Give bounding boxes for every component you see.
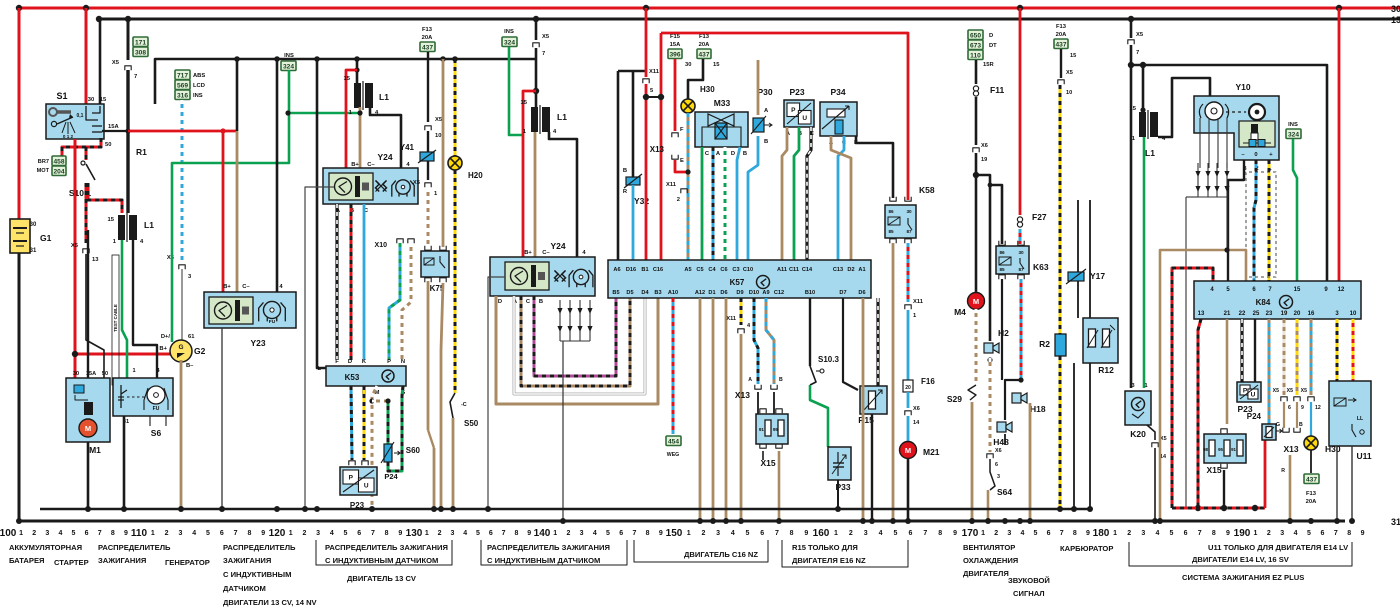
wire K84 pin23 (brown/blue) to P24 — [1268, 319, 1271, 424]
svg-text:3: 3 — [450, 530, 454, 537]
wire junction to H48 (black) — [1005, 380, 1021, 420]
svg-text:6: 6 — [995, 462, 998, 468]
wire M33 C to K57 C5 (green) — [701, 147, 704, 260]
svg-text:8: 8 — [514, 530, 518, 537]
svg-text:204: 204 — [53, 169, 64, 176]
svg-text:6: 6 — [1184, 530, 1188, 537]
svg-text:87: 87 — [906, 229, 912, 234]
svg-text:7: 7 — [1060, 530, 1064, 537]
wire Y10-2 to K84 pin 6 (blue/black) — [1254, 160, 1256, 281]
svg-text:85: 85 — [999, 267, 1005, 272]
wire Y24 screen ground (thin) — [488, 277, 505, 509]
svg-text:20: 20 — [905, 385, 911, 391]
svg-text:X13: X13 — [735, 390, 750, 400]
wire M1 15A (black) — [87, 230, 89, 378]
ignition coil L1 (for Y24) — [356, 59, 359, 83]
svg-text:F11: F11 — [990, 85, 1004, 95]
svg-text:1: 1 — [1253, 530, 1257, 537]
svg-text:4: 4 — [330, 530, 334, 537]
svg-text:ДВИГАТЕЛЯ: ДВИГАТЕЛЯ — [963, 569, 1009, 578]
wire S6 to junction line — [123, 416, 126, 509]
wire ignition switch feed from bus 30 — [85, 8, 88, 104]
bracket engine C16 NZ — [634, 540, 768, 562]
svg-text:R15 ТОЛЬКО ДЛЯ: R15 ТОЛЬКО ДЛЯ — [792, 543, 858, 552]
svg-text:50: 50 — [105, 142, 111, 148]
wire H30 to K57 A5 (brown/blue) — [687, 113, 690, 260]
svg-text:2: 2 — [677, 197, 680, 203]
svg-text:X5: X5 — [1287, 388, 1293, 394]
wire black from bus to Y23 C- — [236, 59, 239, 131]
svg-text:4: 4 — [463, 530, 467, 537]
svg-text:31: 31 — [30, 248, 37, 254]
spark plug array (right) — [1197, 163, 1199, 197]
wire bus30 to K84 pin 12 (red) — [1338, 8, 1341, 281]
svg-text:X5: X5 — [542, 34, 550, 40]
svg-text:30: 30 — [1018, 250, 1024, 255]
wire to fuse F11 — [975, 60, 978, 84]
svg-text:ABS: ABS — [193, 73, 205, 79]
svg-text:R1: R1 — [136, 147, 147, 157]
svg-text:1: 1 — [553, 530, 557, 537]
wire S1 pin 15 from bus 15 — [99, 19, 102, 104]
wire K84 pin21 (brown) to X15 — [1226, 319, 1229, 424]
svg-text:91: 91 — [759, 427, 765, 432]
resistor R2 — [1055, 334, 1066, 356]
svg-text:E: E — [680, 158, 684, 164]
svg-text:1: 1 — [151, 530, 155, 537]
svg-text:B–: B– — [186, 363, 194, 369]
wire ballast resistor R1 from bus 15 — [127, 19, 130, 60]
svg-text:20A: 20A — [1306, 499, 1317, 505]
wire F13 to lamp H30 (black) — [688, 59, 703, 99]
wire X11-4 ground (brown) — [740, 334, 743, 521]
svg-text:G: G — [178, 344, 183, 351]
svg-text:61: 61 — [188, 334, 195, 340]
svg-text:D16: D16 — [626, 267, 636, 273]
svg-text:9: 9 — [261, 530, 265, 537]
node dots on line 31 — [16, 518, 22, 524]
svg-text:7: 7 — [98, 530, 102, 537]
svg-text:140: 140 — [534, 528, 551, 539]
wire P34 A to K57 D2 (brown) — [831, 136, 851, 260]
node junctions on bus 30 — [16, 5, 22, 11]
svg-text:A9: A9 — [762, 290, 769, 296]
wire Y41 to K75 (brown/white) — [427, 188, 430, 247]
svg-text:H48: H48 — [993, 437, 1009, 447]
svg-text:R12: R12 — [1098, 365, 1114, 375]
wire K57 A6 black — [617, 71, 620, 260]
svg-text:1: 1 — [132, 368, 135, 374]
svg-text:LCD: LCD — [193, 83, 205, 89]
wire S29 ground (brown) — [971, 402, 974, 521]
svg-text:50: 50 — [102, 371, 108, 377]
resistor P24 (left) — [384, 444, 392, 462]
wire H18 ground (brown) — [1029, 403, 1032, 521]
generator G2 — [170, 340, 192, 362]
wire K20 to X5-14 — [1147, 425, 1155, 440]
svg-text:8: 8 — [938, 530, 942, 537]
svg-text:R2: R2 — [1039, 339, 1050, 349]
wire K57 D1 ground (brown) — [712, 298, 715, 521]
wire Y24 D (white) loop to K57 D4 — [514, 296, 645, 394]
wire K84 pin13 (red/black) to ground loop — [1198, 319, 1201, 508]
svg-text:F27: F27 — [1032, 212, 1047, 222]
fuse F16 — [903, 380, 913, 392]
fuse label 171 308 — [133, 37, 148, 47]
svg-text:98: 98 — [1203, 447, 1208, 452]
svg-text:LL: LL — [1357, 416, 1364, 422]
wire P34 B to relay K58 (black) — [856, 136, 893, 198]
svg-text:3: 3 — [316, 530, 320, 537]
svg-text:C10: C10 — [743, 267, 753, 273]
svg-text:8: 8 — [646, 530, 650, 537]
svg-text:A10: A10 — [668, 290, 678, 296]
svg-text:ВЕНТИЛЯТОР: ВЕНТИЛЯТОР — [963, 543, 1015, 552]
svg-text:15A: 15A — [670, 42, 681, 48]
svg-text:2: 2 — [1127, 530, 1131, 537]
svg-text:2: 2 — [438, 530, 442, 537]
wire K84 pin20 (brown/yellow) to X13 — [1296, 319, 1299, 395]
test cable marking — [112, 255, 119, 385]
svg-text:X13: X13 — [1283, 444, 1298, 454]
wire Y24 B (red/black) to K53 D — [350, 204, 353, 360]
svg-text:12: 12 — [1315, 405, 1321, 411]
svg-text:171: 171 — [135, 40, 146, 47]
svg-text:D: D — [498, 299, 502, 305]
svg-text:С ИНДУКТИВНЫМ: С ИНДУКТИВНЫМ — [223, 570, 291, 579]
svg-text:7: 7 — [923, 530, 927, 537]
wire P33 ground — [837, 480, 839, 509]
wire H2 to X6-6 (brown/white) — [987, 357, 992, 362]
svg-text:4: 4 — [1155, 530, 1159, 537]
svg-text:M: M — [85, 424, 91, 433]
capacitor P33 — [828, 447, 851, 480]
wire M21 ground — [907, 458, 910, 521]
svg-text:Y41: Y41 — [400, 143, 415, 152]
svg-text:ДАТЧИКОМ: ДАТЧИКОМ — [223, 584, 266, 593]
svg-text:СИСТЕМА ЗАЖИГАНИЯ EZ PLUS: СИСТЕМА ЗАЖИГАНИЯ EZ PLUS — [1182, 573, 1304, 582]
svg-text:M: M — [905, 446, 911, 455]
svg-text:H20: H20 — [468, 171, 483, 180]
svg-text:ДВИГАТЕЛИ E14 LV, 16 SV: ДВИГАТЕЛИ E14 LV, 16 SV — [1192, 555, 1290, 564]
svg-text:A: A — [748, 377, 752, 383]
svg-text:БАТАРЕЯ: БАТАРЕЯ — [9, 556, 45, 565]
svg-text:K57: K57 — [730, 278, 745, 287]
svg-text:M4: M4 — [954, 307, 966, 317]
wire X5-13 to M1 terminal 50 — [86, 254, 104, 378]
svg-text:P30: P30 — [757, 87, 772, 97]
svg-text:F15: F15 — [670, 34, 681, 40]
svg-text:130: 130 — [406, 528, 423, 539]
svg-text:-C: -C — [461, 402, 467, 408]
svg-text:324: 324 — [1288, 132, 1299, 139]
resistor R15 — [860, 386, 887, 414]
svg-text:ЗВУКОВОЙ: ЗВУКОВОЙ — [1008, 576, 1050, 585]
wire to fan motor M4 — [975, 175, 978, 292]
svg-text:3: 3 — [716, 530, 720, 537]
svg-text:C6: C6 — [720, 267, 727, 273]
svg-text:P: P — [387, 359, 391, 365]
svg-text:X6: X6 — [981, 143, 988, 149]
switch S29 — [968, 385, 976, 400]
svg-text:1: 1 — [981, 530, 985, 537]
wire H20 feed (yellow/black) from top — [454, 59, 457, 156]
wire X11 to fuse F16 (blue) — [907, 310, 910, 380]
svg-text:B: B — [539, 299, 543, 305]
svg-text:Y24: Y24 — [377, 152, 392, 162]
lamp H30 (right) — [1310, 402, 1312, 436]
svg-text:B: B — [764, 139, 768, 145]
svg-text:15A: 15A — [108, 124, 119, 130]
bracket engine 13CV — [316, 540, 452, 565]
svg-text:4: 4 — [1020, 530, 1024, 537]
svg-text:1: 1 — [425, 530, 429, 537]
svg-text:H18: H18 — [1030, 404, 1046, 414]
svg-text:Y24: Y24 — [550, 241, 565, 251]
svg-text:C4: C4 — [708, 267, 716, 273]
relay K63 — [999, 241, 1005, 245]
svg-text:9: 9 — [953, 530, 957, 537]
svg-text:15: 15 — [1070, 53, 1076, 59]
svg-text:S50: S50 — [464, 419, 479, 428]
svg-text:С ИНДУКТИВНЫМ ДАТЧИКОМ: С ИНДУКТИВНЫМ ДАТЧИКОМ — [325, 556, 438, 565]
bracket EZ plus — [1129, 542, 1352, 566]
wire K57 D6 ground (brown) — [725, 298, 728, 521]
svg-text:ДВИГАТЕЛИ 13 CV, 14 NV: ДВИГАТЕЛИ 13 CV, 14 NV — [223, 598, 318, 607]
svg-text:D: D — [348, 359, 352, 365]
svg-text:673: 673 — [970, 43, 981, 50]
svg-text:5: 5 — [746, 530, 750, 537]
ignition coil L1 (left) — [118, 215, 125, 240]
svg-text:9: 9 — [1301, 405, 1304, 411]
wire red to Y24 B+ (middle) — [523, 91, 536, 257]
wire Y24 C (blue) to K53 K — [363, 204, 366, 360]
svg-text:458: 458 — [53, 159, 64, 166]
wire Y10-1 to K84 pin 7 (yellow/black) — [1268, 160, 1271, 281]
wire K75 to S60 (brown) — [427, 281, 430, 430]
svg-text:MOT: MOT — [37, 168, 50, 174]
svg-text:4: 4 — [58, 530, 62, 537]
fuse F11 — [973, 86, 978, 91]
wire spark bar to brown ring (thin) — [1226, 197, 1228, 250]
svg-text:M1: M1 — [89, 445, 101, 455]
svg-text:B: B — [779, 377, 783, 383]
wire K57 D6 ground 2 (brown) — [862, 298, 865, 521]
svg-text:316: 316 — [177, 93, 188, 100]
svg-text:30: 30 — [685, 62, 691, 68]
svg-text:C–: C– — [542, 250, 550, 256]
svg-text:X15: X15 — [1206, 465, 1221, 475]
fuse labels ABS LCD INS 717 569 316 — [175, 70, 190, 80]
svg-text:D1: D1 — [708, 290, 715, 296]
fuse label 454 WEG — [666, 436, 681, 446]
svg-text:2: 2 — [849, 530, 853, 537]
svg-text:N: N — [401, 359, 405, 365]
svg-text:X11: X11 — [913, 299, 924, 305]
wire to K84 pin 9 (black) — [1131, 65, 1327, 281]
wire M33 B to K57 C3 (blue) — [737, 147, 740, 260]
svg-text:6: 6 — [908, 530, 912, 537]
wire bus30 to fuse F27 (red) — [1019, 8, 1022, 215]
svg-text:B: B — [623, 168, 627, 174]
svg-text:S60: S60 — [406, 446, 421, 455]
svg-text:8: 8 — [1212, 530, 1216, 537]
svg-text:16: 16 — [1308, 311, 1315, 317]
svg-text:M: M — [973, 297, 979, 306]
svg-text:X5: X5 — [413, 180, 421, 186]
wire S64 ground (brown) — [987, 490, 990, 521]
svg-text:D2: D2 — [847, 267, 854, 273]
svg-text:D6: D6 — [858, 290, 865, 296]
svg-text:X13: X13 — [650, 145, 665, 154]
svg-text:180: 180 — [1093, 528, 1110, 539]
svg-text:U11 ТОЛЬКО ДЛЯ ДВИГАТЕЛЯ E14 L: U11 ТОЛЬКО ДЛЯ ДВИГАТЕЛЯ E14 LV — [1208, 543, 1349, 552]
svg-text:30: 30 — [906, 209, 912, 214]
bracket distributor 3 — [481, 540, 627, 565]
svg-text:X5: X5 — [1273, 388, 1279, 394]
svg-text:D+/: D+/ — [161, 334, 171, 340]
wire P23 C to K57 C14 (black/white) — [807, 127, 811, 260]
wire red feed from S1 15A — [128, 130, 237, 133]
svg-text:20: 20 — [1294, 311, 1301, 317]
svg-text:ЗАЖИГАНИЯ: ЗАЖИГАНИЯ — [223, 556, 271, 565]
svg-text:P23: P23 — [789, 87, 804, 97]
svg-text:9: 9 — [1226, 530, 1230, 537]
wire Y24 screen ground thin — [305, 187, 334, 509]
wire H30 to fuse label 437 — [1310, 450, 1312, 473]
svg-text:F: F — [680, 127, 684, 133]
svg-text:20A: 20A — [699, 42, 710, 48]
svg-text:С ИНДУКТИВНЫМ ДАТЧИКОМ: С ИНДУКТИВНЫМ ДАТЧИКОМ — [487, 556, 600, 565]
svg-text:X11: X11 — [726, 316, 736, 322]
svg-text:3: 3 — [580, 530, 584, 537]
wire red branch to Y24 B+ — [346, 70, 357, 168]
wire K84 pin3 to U11 (yellow/black) — [1336, 319, 1339, 381]
svg-text:R: R — [1281, 468, 1285, 474]
svg-text:2: 2 — [701, 530, 705, 537]
svg-text:6: 6 — [489, 530, 493, 537]
svg-text:6: 6 — [760, 530, 764, 537]
node junctions on bus 15 — [96, 16, 102, 22]
svg-text:160: 160 — [813, 528, 830, 539]
wire K75 right to ground (brown) — [441, 283, 443, 509]
svg-text:9: 9 — [124, 530, 128, 537]
svg-text:G2: G2 — [194, 346, 206, 356]
svg-text:P: P — [349, 474, 354, 481]
svg-text:8: 8 — [1347, 530, 1351, 537]
node dots on junction line — [85, 506, 91, 512]
svg-text:B10: B10 — [805, 290, 815, 296]
svg-text:5: 5 — [1034, 530, 1038, 537]
svg-text:5: 5 — [894, 530, 898, 537]
svg-text:INS: INS — [504, 29, 514, 35]
wire red loop to K57 C16 — [660, 33, 663, 260]
wire X15 to loop (black) — [1223, 470, 1225, 508]
svg-text:87: 87 — [1018, 267, 1024, 272]
svg-text:A5: A5 — [684, 267, 691, 273]
wire F27 to K63 (red/blue) — [1019, 229, 1022, 244]
svg-text:8: 8 — [111, 530, 115, 537]
svg-text:6: 6 — [220, 530, 224, 537]
wire X13 ground (brown) — [1289, 455, 1292, 521]
svg-text:9: 9 — [1361, 530, 1365, 537]
svg-text:G: G — [1276, 422, 1280, 428]
wire junction line above 31 — [40, 508, 1089, 511]
svg-text:110: 110 — [970, 53, 981, 60]
wire bus 15 to X5-7 (middle) — [535, 19, 538, 40]
ignition coil L1 (middle) — [531, 107, 538, 132]
svg-text:L1: L1 — [144, 220, 154, 230]
wire Y23 pin 4 black — [276, 59, 279, 292]
svg-text:4: 4 — [879, 530, 883, 537]
svg-text:X5: X5 — [71, 243, 79, 249]
svg-text:23: 23 — [1266, 311, 1273, 317]
svg-text:P: P — [1243, 387, 1248, 394]
svg-text:13: 13 — [92, 257, 99, 263]
svg-text:5: 5 — [606, 530, 610, 537]
svg-text:15: 15 — [344, 76, 351, 82]
spark plug array (middle) — [559, 300, 561, 341]
wire resistor R1 to coil — [126, 70, 129, 213]
wire bus segment to X5-7 column — [155, 59, 536, 104]
svg-text:12: 12 — [1338, 287, 1345, 293]
svg-text:Y23: Y23 — [250, 338, 265, 348]
svg-text:2: 2 — [165, 530, 169, 537]
svg-text:H30: H30 — [700, 85, 715, 94]
svg-text:INS: INS — [193, 93, 203, 99]
svg-text:7: 7 — [134, 74, 137, 80]
svg-text:X5: X5 — [1066, 70, 1073, 76]
svg-text:30: 30 — [88, 97, 94, 103]
svg-text:15: 15 — [108, 217, 115, 223]
svg-text:19: 19 — [981, 157, 987, 163]
wire X10 to K53 P (blue/green) — [389, 243, 400, 360]
svg-text:X5: X5 — [112, 60, 120, 66]
wire S1 15A to resistor R1 — [102, 130, 128, 132]
svg-text:15: 15 — [1130, 106, 1137, 112]
svg-text:95: 95 — [1218, 447, 1223, 452]
svg-text:437: 437 — [1055, 42, 1066, 49]
wire bus 30 (red, top) — [19, 7, 1400, 10]
svg-text:РАСПРЕДЕЛИТЕЛЬ: РАСПРЕДЕЛИТЕЛЬ — [98, 543, 171, 552]
svg-text:14: 14 — [913, 420, 920, 426]
svg-text:3: 3 — [178, 530, 182, 537]
svg-text:K20: K20 — [1130, 429, 1146, 439]
svg-text:396: 396 — [669, 52, 680, 59]
wire K75 feed brown — [442, 59, 445, 247]
svg-text:ОХЛАЖДЕНИЯ: ОХЛАЖДЕНИЯ — [963, 556, 1018, 565]
connector X13 (right) — [1283, 402, 1285, 428]
svg-text:1: 1 — [1113, 530, 1117, 537]
svg-text:1: 1 — [834, 530, 838, 537]
svg-text:BR7: BR7 — [38, 159, 49, 165]
wire S10.1 to connector X5-13 (red/black) — [85, 183, 88, 243]
wire F13 to Y41 — [427, 52, 429, 122]
wire P30 B to K57 C10 (blue) — [748, 136, 758, 260]
svg-text:2: 2 — [566, 530, 570, 537]
wire diagnostic (blue/white) to X5-3 — [181, 100, 184, 262]
svg-text:2: 2 — [994, 530, 998, 537]
svg-text:P24: P24 — [1247, 412, 1262, 421]
svg-text:WEG: WEG — [667, 452, 679, 458]
svg-text:30: 30 — [1391, 4, 1400, 14]
wire F11 to X6-19 — [975, 97, 978, 145]
svg-text:F13: F13 — [1306, 491, 1317, 497]
wire K57 D7 to R15 (black) — [843, 298, 858, 390]
horn H2 — [984, 343, 993, 353]
wire M33 D to K57 C6 (green/white) — [724, 147, 727, 260]
svg-text:170: 170 — [962, 528, 979, 539]
